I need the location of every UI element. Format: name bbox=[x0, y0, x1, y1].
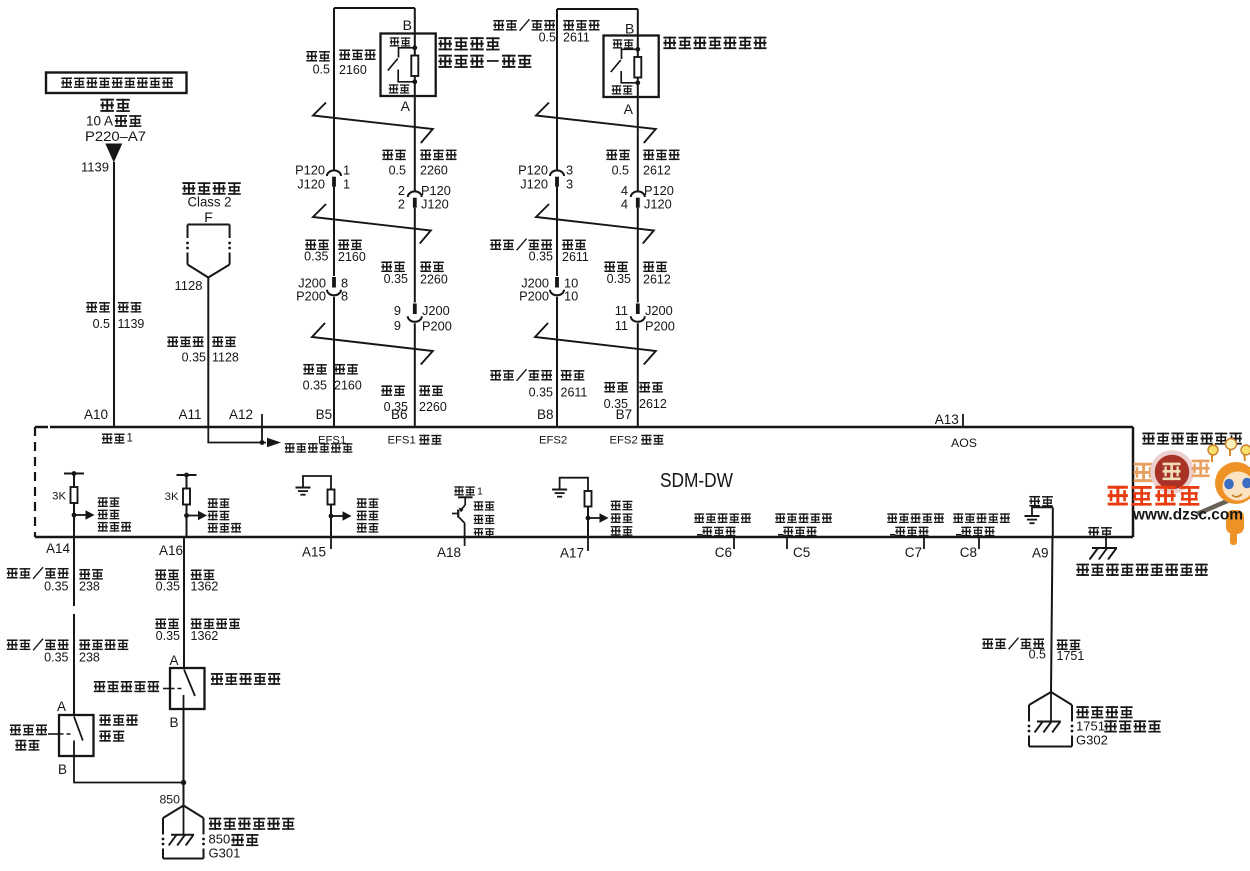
twisted-pair mark 2c bbox=[535, 323, 656, 365]
label 安全带开关 (right) bbox=[211, 673, 280, 685]
label 点火1 (A18) bbox=[454, 486, 483, 498]
label 信号 bbox=[390, 37, 411, 46]
wire sensor1 internal+return top bbox=[414, 8, 416, 191]
label EFS2 bbox=[539, 434, 567, 446]
svg-text:3K: 3K bbox=[165, 491, 179, 503]
label A (pin) bbox=[169, 653, 178, 668]
wire switchL-B to junction bbox=[74, 756, 184, 783]
terminal C7 tick+label bbox=[905, 537, 924, 560]
svg-text:G301: G301 bbox=[209, 846, 241, 861]
svg-text:0.35: 0.35 bbox=[182, 351, 206, 365]
svg-text:EFS2: EFS2 bbox=[539, 434, 567, 446]
label 灰色 0.35 / 车身 2260 bbox=[381, 385, 447, 414]
terminal A12 label+tick bbox=[229, 407, 262, 427]
seat position sense A17 (ground+resistor) bbox=[552, 478, 608, 551]
connector G302 (house) bbox=[1028, 692, 1074, 747]
svg-text:3: 3 bbox=[566, 177, 573, 192]
svg-text:1362: 1362 bbox=[191, 580, 219, 594]
svg-text:A10: A10 bbox=[84, 407, 108, 422]
wire EFS1 feed (top segment) bbox=[333, 8, 335, 170]
fuse F1 label P220-A7 bbox=[85, 129, 146, 144]
svg-text:0.35: 0.35 bbox=[44, 580, 68, 594]
connector C2 data-link (house shape) bbox=[186, 225, 231, 278]
label 左侧传感器低电平 bbox=[694, 513, 750, 536]
terminal A16 label bbox=[159, 543, 183, 558]
svg-text:EFS2: EFS2 bbox=[610, 434, 638, 446]
label 红色 0.35 / 右前座椅 1362 bbox=[155, 618, 239, 643]
wire A9 to G302 bbox=[1051, 537, 1053, 692]
svg-text:850: 850 bbox=[159, 793, 180, 807]
label 红色 0.35 / 车身 1362 bbox=[155, 569, 218, 593]
svg-text:1128: 1128 bbox=[175, 278, 203, 293]
serial data line (A11/A12 join, arrow) bbox=[208, 427, 281, 447]
svg-text:0.5: 0.5 bbox=[612, 164, 629, 178]
twisted-pair mark 2b bbox=[536, 204, 654, 244]
sensor1 node dots bbox=[412, 45, 417, 84]
svg-text:G302: G302 bbox=[1076, 733, 1108, 748]
svg-text:238: 238 bbox=[79, 580, 100, 594]
svg-text:J120: J120 bbox=[297, 177, 325, 192]
label 传感和诊断模块壳体 bbox=[1076, 564, 1207, 576]
label AOS bbox=[951, 436, 977, 450]
svg-text:J120: J120 bbox=[520, 177, 548, 192]
label J200 P200 8 8 bbox=[296, 276, 348, 304]
switch actuator dashes bbox=[48, 733, 73, 735]
label 2 2 P120 J120 bbox=[398, 183, 451, 212]
connector G301 (house) bbox=[162, 806, 205, 859]
svg-text:1139: 1139 bbox=[118, 317, 145, 331]
connector P120/J120 pin1 bbox=[327, 170, 341, 186]
terminal C6 tick+label bbox=[715, 537, 734, 560]
wire EFS1-return mid segment bbox=[414, 208, 416, 303]
wire EFS2 feed (lower segment) bbox=[556, 297, 558, 427]
svg-text:B8: B8 bbox=[537, 407, 554, 422]
connector J200/P200 pin10 bbox=[550, 277, 564, 295]
svg-text:A9: A9 bbox=[1032, 546, 1049, 561]
label 右侧传感器高电平 bbox=[953, 513, 1009, 536]
switch blade bbox=[184, 670, 196, 710]
label 白色/黑色 0.35 / 车身 2611 bbox=[490, 369, 587, 399]
label B (pin) bbox=[170, 715, 179, 730]
svg-text:2612: 2612 bbox=[643, 164, 671, 178]
label 灰色 0.5 / 行车灯 2260 bbox=[382, 150, 456, 178]
svg-text:P120: P120 bbox=[518, 163, 548, 178]
label 黑色/白色 0.35 / 左前座椅 238 bbox=[7, 639, 128, 665]
svg-text:2160: 2160 bbox=[334, 379, 362, 393]
svg-text:J120: J120 bbox=[421, 197, 449, 212]
label 前端识别传感器 bbox=[663, 37, 766, 50]
terminal A13 label+tick bbox=[935, 412, 963, 427]
terminal A15 label bbox=[302, 545, 326, 560]
terminal A17 label bbox=[560, 546, 584, 561]
svg-text:AOS: AOS bbox=[951, 436, 977, 450]
svg-text:238: 238 bbox=[79, 651, 100, 665]
seat belt switch (right front) box bbox=[170, 668, 205, 709]
svg-text:F: F bbox=[204, 209, 213, 225]
svg-text:1: 1 bbox=[477, 486, 483, 498]
svg-text:C7: C7 bbox=[905, 545, 922, 560]
junction dot bbox=[181, 780, 186, 785]
svg-text:2160: 2160 bbox=[338, 250, 366, 264]
svg-text:A17: A17 bbox=[560, 546, 584, 561]
connector J200/P200 pin11 bbox=[631, 304, 645, 322]
SDM-DW module box outline bbox=[35, 427, 1133, 537]
terminal C8 tick+label bbox=[960, 537, 979, 560]
label 紫色 0.5 / 行车灯 2612 bbox=[606, 150, 679, 178]
label 10A熔丝 bbox=[86, 114, 141, 129]
twisted-pair mark 1b bbox=[313, 204, 431, 244]
front-end sensor box bbox=[604, 36, 659, 98]
svg-text:1: 1 bbox=[127, 433, 133, 445]
label J200 P200 10 10 bbox=[519, 276, 578, 304]
svg-text:C5: C5 bbox=[793, 545, 810, 560]
label 4 4 P120 J120 bbox=[621, 183, 674, 212]
terminal A14 label bbox=[46, 541, 71, 556]
label 白色/黑色 0.5 / 行车灯 2611 bbox=[493, 19, 599, 44]
svg-text:P200: P200 bbox=[422, 319, 452, 334]
label B (pin) bbox=[625, 21, 634, 37]
svg-text:0.35: 0.35 bbox=[304, 250, 328, 264]
svg-text:10: 10 bbox=[564, 289, 578, 304]
label 返回 bbox=[612, 85, 633, 94]
svg-text:A: A bbox=[57, 699, 66, 714]
twisted-pair mark 1c bbox=[312, 323, 433, 365]
sensor1 resistor bbox=[411, 56, 418, 77]
wire EFS1-return lower segment bbox=[414, 323, 416, 427]
terminal A11 label bbox=[179, 407, 202, 422]
wire A14 to switch (lower) bbox=[73, 614, 75, 715]
label 紫色 0.35 / IP 2612 bbox=[604, 261, 671, 286]
svg-text:C6: C6 bbox=[715, 545, 732, 560]
label 紫色 0.35 / 车身 2612 bbox=[604, 382, 667, 411]
terminal B7 label bbox=[616, 407, 633, 422]
svg-text:A14: A14 bbox=[46, 541, 71, 556]
sensor2 resistor bbox=[634, 57, 641, 78]
svg-text:P200: P200 bbox=[645, 319, 675, 334]
connector P120/J120 pin3 bbox=[550, 170, 564, 186]
svg-text:EFS1: EFS1 bbox=[318, 434, 346, 446]
front-end sensor left-front box bbox=[381, 34, 436, 97]
label 深蓝色 0.35 / 车身 1128 bbox=[167, 336, 239, 364]
svg-text:11: 11 bbox=[615, 318, 628, 333]
svg-text:SDM-DW: SDM-DW bbox=[660, 470, 733, 492]
svg-text:2160: 2160 bbox=[339, 63, 367, 77]
svg-text:0.5: 0.5 bbox=[539, 31, 556, 45]
svg-text:A: A bbox=[401, 98, 411, 114]
svg-text:2612: 2612 bbox=[639, 397, 667, 411]
label 1139 bbox=[81, 160, 109, 175]
switch actuator dashes bbox=[163, 688, 184, 690]
label 带腰撑型座椅 850接头 G301 bbox=[209, 818, 295, 861]
chassis ground (module case) bbox=[1090, 537, 1118, 560]
svg-text:2612: 2612 bbox=[643, 273, 671, 287]
label EFS1 bbox=[318, 434, 346, 446]
svg-text:0.35: 0.35 bbox=[156, 580, 180, 594]
svg-text:B6: B6 bbox=[391, 407, 408, 422]
svg-text:0.35: 0.35 bbox=[529, 386, 553, 400]
svg-text:B: B bbox=[170, 715, 179, 730]
label 安全带开关 (right) bbox=[99, 714, 137, 741]
label 前端识别传感器－左前 bbox=[438, 37, 531, 68]
seat position sense A15 (ground+resistor) bbox=[296, 476, 352, 549]
ground symbol G301 bbox=[169, 806, 194, 846]
svg-text:0.5: 0.5 bbox=[389, 164, 406, 178]
label 壳体 (case) bbox=[1088, 527, 1111, 538]
svg-text:2611: 2611 bbox=[561, 386, 588, 400]
terminal C5 tick+label bbox=[787, 537, 810, 560]
svg-text:B7: B7 bbox=[616, 407, 633, 422]
label 返回 bbox=[389, 84, 410, 93]
label A (pin) bbox=[57, 699, 66, 714]
terminal B8 label bbox=[537, 407, 554, 422]
label 3K bbox=[52, 491, 66, 503]
wire switchR-B to G301 bbox=[183, 709, 185, 806]
label 数据链路 Class 2 bbox=[182, 182, 240, 225]
twisted-pair mark 2a bbox=[536, 103, 656, 144]
connector J200/P200 pin8 bbox=[327, 277, 341, 295]
svg-text:3: 3 bbox=[566, 163, 573, 178]
ground A9 internal (接地) bbox=[1025, 496, 1053, 523]
svg-text:P120: P120 bbox=[295, 163, 325, 178]
connector P120/J120 pin2 bbox=[408, 191, 422, 207]
label 接地分配 1751环形端子 G302 bbox=[1076, 706, 1161, 747]
terminal B5 label bbox=[316, 407, 333, 422]
wire EFS2-return mid segment bbox=[637, 208, 639, 303]
svg-text:2611: 2611 bbox=[563, 31, 590, 45]
svg-text:0.5: 0.5 bbox=[313, 63, 330, 77]
label A (pin) bbox=[401, 98, 411, 114]
svg-text:0.35: 0.35 bbox=[384, 272, 408, 286]
connector P120/J120 pin4 bbox=[631, 191, 645, 207]
label 白色/黑色 0.35 / IP 2611 bbox=[490, 239, 589, 264]
wire EFS2 loop top bbox=[557, 8, 638, 10]
label 右侧传感器低电平 bbox=[887, 513, 943, 536]
terminal B6 label bbox=[391, 407, 408, 422]
resistor 3K (A16 seat belt) bbox=[177, 473, 208, 537]
svg-text:0.35: 0.35 bbox=[303, 379, 327, 393]
label EFS1 返回 bbox=[388, 434, 442, 446]
svg-text:B: B bbox=[403, 17, 412, 33]
wire EFS2 feed (mid segment) bbox=[556, 187, 558, 276]
svg-text:11: 11 bbox=[615, 303, 628, 318]
wire sensor2 internal+return top bbox=[637, 9, 639, 191]
label P120 J120 1 1 bbox=[295, 163, 350, 192]
label 黄色 0.35 / IP 2160 bbox=[304, 239, 366, 264]
ground symbol G302 bbox=[1035, 692, 1061, 732]
svg-text:0.5: 0.5 bbox=[1029, 648, 1046, 662]
svg-text:P220–A7: P220–A7 bbox=[85, 129, 146, 144]
resistor 3K (A14 seat belt) bbox=[64, 471, 95, 537]
wire 1139 (fuse to A10) bbox=[113, 162, 115, 427]
label B (pin) bbox=[58, 762, 67, 777]
label 信号 bbox=[613, 39, 634, 48]
wire EFS1 feed (lower segment) bbox=[333, 297, 335, 427]
terminal A9 label bbox=[1032, 546, 1049, 561]
svg-text:A13: A13 bbox=[935, 412, 959, 427]
label 850 bbox=[159, 793, 180, 807]
label A (pin) bbox=[624, 101, 634, 117]
label 11 11 J200 P200 bbox=[615, 303, 675, 334]
svg-text:C8: C8 bbox=[960, 545, 977, 560]
sensor2 node dots bbox=[635, 47, 640, 85]
wire EFS2 feed (top segment) bbox=[556, 9, 558, 170]
svg-text:2: 2 bbox=[398, 197, 405, 212]
svg-text:P200: P200 bbox=[519, 289, 549, 304]
wire EFS1 loop top bbox=[334, 7, 415, 9]
svg-text:10 A: 10 A bbox=[86, 114, 113, 129]
label 黄色 0.5 / 车身 1139 bbox=[86, 302, 144, 331]
label 3K bbox=[165, 491, 179, 503]
label 灰色 0.35 / IP 2260 bbox=[381, 261, 448, 286]
label 配电 bbox=[100, 99, 129, 112]
label 安全带开关 (left) bbox=[10, 724, 47, 750]
label 9 9 J200 P200 bbox=[394, 303, 452, 334]
label 黄色 0.5 / 行车灯 2160 bbox=[306, 49, 375, 77]
svg-text:2611: 2611 bbox=[562, 250, 589, 264]
label 右前座椅位置 bbox=[611, 501, 633, 536]
svg-text:1751: 1751 bbox=[1076, 719, 1105, 734]
svg-text:www.dzsc.com: www.dzsc.com bbox=[1132, 507, 1243, 524]
svg-text:B: B bbox=[625, 21, 634, 37]
wire EFS1 feed (mid segment) bbox=[333, 187, 335, 276]
svg-text:0.35: 0.35 bbox=[607, 272, 631, 286]
svg-text:2260: 2260 bbox=[419, 400, 447, 414]
svg-text:A11: A11 bbox=[179, 407, 202, 422]
label B (pin) bbox=[403, 17, 412, 33]
label 右前座椅安全带 bbox=[208, 498, 241, 532]
fuse output triangle bbox=[105, 144, 122, 163]
svg-text:1139: 1139 bbox=[81, 160, 109, 175]
svg-text:1362: 1362 bbox=[191, 629, 219, 643]
label EFS2 返回 bbox=[610, 434, 664, 446]
label 传感和诊断模块 bbox=[1142, 433, 1241, 445]
svg-text:9: 9 bbox=[394, 318, 401, 333]
svg-text:B: B bbox=[58, 762, 67, 777]
switch blade bbox=[74, 717, 83, 757]
transistor A18 (seat position input) bbox=[452, 497, 473, 546]
watermark dzsc.com logo bbox=[1108, 439, 1250, 546]
label 黑色/白色 0.5 / 车身 1751 bbox=[982, 638, 1084, 663]
label 1128 bbox=[175, 278, 203, 293]
wire EFS2-return lower segment bbox=[637, 323, 639, 427]
svg-text:850: 850 bbox=[209, 832, 231, 847]
label 点火1 (ignition 1) bbox=[102, 433, 133, 445]
svg-text:Class 2: Class 2 bbox=[188, 194, 232, 210]
svg-text:P200: P200 bbox=[296, 289, 326, 304]
svg-text:9: 9 bbox=[394, 303, 401, 318]
svg-text:1751: 1751 bbox=[1057, 649, 1085, 663]
sensor2 switch bbox=[611, 49, 638, 83]
svg-text:1128: 1128 bbox=[212, 351, 239, 365]
svg-text:2260: 2260 bbox=[420, 273, 448, 287]
svg-text:J200: J200 bbox=[645, 303, 673, 318]
seat belt switch (left front) box bbox=[59, 715, 94, 756]
svg-text:1: 1 bbox=[343, 163, 350, 178]
label 黑色/白色 0.35 / 车身 238 bbox=[7, 567, 103, 593]
wire A14 to switch (upper) bbox=[73, 537, 75, 606]
svg-text:0.35: 0.35 bbox=[44, 651, 68, 665]
svg-text:0.35: 0.35 bbox=[156, 629, 180, 643]
svg-text:A: A bbox=[169, 653, 178, 668]
svg-text:B5: B5 bbox=[316, 407, 333, 422]
svg-text:3K: 3K bbox=[52, 491, 66, 503]
svg-text:4: 4 bbox=[621, 197, 628, 212]
wire A16 to switch bbox=[183, 537, 185, 668]
label 左侧传感器高电平 bbox=[775, 513, 831, 536]
svg-text:A16: A16 bbox=[159, 543, 183, 558]
svg-text:0.5: 0.5 bbox=[93, 317, 110, 331]
power label box 运行或启动位置通电 bbox=[46, 73, 187, 94]
svg-text:A: A bbox=[624, 101, 634, 117]
svg-text:EFS1: EFS1 bbox=[388, 434, 416, 446]
svg-text:0.35: 0.35 bbox=[529, 250, 553, 264]
terminal A18 label bbox=[437, 545, 461, 560]
connector J200/P200 pin9 bbox=[408, 304, 422, 322]
terminal A10 label bbox=[84, 407, 108, 422]
label 黄色 0.35 / 车身 2160 bbox=[303, 364, 362, 393]
label 左前座椅安全带 bbox=[98, 497, 131, 531]
svg-text:A18: A18 bbox=[437, 545, 461, 560]
wire 1128 (data link to A11) bbox=[207, 278, 209, 428]
svg-text:J200: J200 bbox=[422, 303, 450, 318]
svg-text:2260: 2260 bbox=[420, 164, 448, 178]
sensor1 switch bbox=[388, 48, 415, 82]
wire A9 (internal to edge) bbox=[1052, 507, 1054, 537]
label 座椅位置输入 bbox=[474, 501, 495, 537]
twisted-pair mark 1a bbox=[313, 103, 433, 144]
label SDM-DW bbox=[660, 470, 733, 492]
label P120 J120 3 3 bbox=[518, 163, 573, 192]
svg-text:A12: A12 bbox=[229, 407, 253, 422]
label 串行数据线路 bbox=[285, 443, 353, 453]
svg-text:8: 8 bbox=[341, 289, 348, 304]
svg-text:A15: A15 bbox=[302, 545, 326, 560]
label 左前座椅位置 bbox=[357, 498, 379, 532]
svg-text:1: 1 bbox=[343, 177, 350, 192]
svg-text:J120: J120 bbox=[644, 197, 672, 212]
label 安全带开关 (left) bbox=[94, 681, 159, 692]
